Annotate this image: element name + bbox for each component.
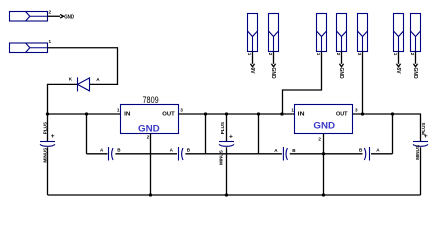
connector SV2 pin 2 (GND) (337, 14, 347, 52)
junction dot (225, 112, 228, 115)
cap row wire segment 3b (290, 153, 363, 155)
regulator IC2 (295, 105, 353, 134)
svg-text:A: A (170, 147, 174, 152)
svg-text:A: A (376, 147, 380, 152)
svg-text:2: 2 (147, 134, 150, 139)
junction dot (46, 112, 49, 115)
net label GND arrow (339, 64, 343, 67)
svg-text:GND: GND (64, 14, 74, 20)
wire diode cathode to input rail (48, 84, 78, 114)
cap row wire segment 4 (371, 153, 393, 155)
svg-text:IN: IN (124, 112, 130, 118)
riser wire to cap row (86, 114, 88, 154)
svg-text:OUT: OUT (162, 112, 175, 118)
connector SV1 pin 2 (GND) (269, 14, 279, 52)
svg-text:GND: GND (338, 68, 344, 80)
junction dot (204, 112, 207, 115)
svg-text:GND: GND (138, 124, 160, 134)
ground rail wire (48, 194, 421, 196)
svg-text:GND: GND (313, 121, 335, 131)
wire stub (273, 52, 275, 64)
riser wire 5V rail to cap row (392, 114, 394, 154)
wire pin1 to diode anode (48, 48, 118, 85)
net label GND arrow (413, 64, 417, 67)
svg-text:5V: 5V (395, 68, 401, 75)
IC1 GND pin wire to ground rail (150, 134, 152, 196)
junction dot (361, 112, 364, 115)
svg-text:MINUS: MINUS (218, 150, 223, 165)
junction dot (322, 152, 325, 155)
svg-text:2: 2 (268, 53, 273, 56)
svg-text:PLUS: PLUS (43, 122, 48, 134)
capacitor C7 (ceramic) (283, 147, 287, 161)
svg-text:3: 3 (357, 53, 362, 56)
svg-text:B: B (292, 148, 296, 153)
regulator IC1 7809 (121, 105, 179, 134)
svg-text:2: 2 (410, 53, 415, 56)
svg-text:2: 2 (336, 53, 341, 56)
cap row wire segment 3 (185, 153, 282, 155)
svg-text:A: A (100, 147, 104, 152)
net label 5V arrow (396, 64, 400, 67)
5V rail wire (353, 114, 421, 142)
svg-text:K: K (69, 77, 73, 82)
junction dot (391, 112, 394, 115)
IC2 GND pin wire to ground rail (323, 134, 325, 196)
svg-text:GND: GND (270, 68, 276, 80)
junction dot (149, 193, 152, 196)
svg-text:2: 2 (318, 137, 321, 142)
svg-text:PLUS: PLUS (220, 122, 225, 134)
svg-text:+: + (51, 133, 55, 140)
svg-text:B: B (187, 148, 191, 153)
svg-text:1: 1 (316, 53, 321, 56)
wire stub (252, 52, 254, 64)
9V rail wire (179, 113, 295, 115)
wire SV2 pin3 to 5V rail (362, 52, 364, 115)
svg-text:A: A (274, 148, 278, 153)
input rail wire (48, 113, 121, 115)
connector SV2 pin 1 (to 9V rail) (317, 14, 327, 52)
cap row wire segment 1 (87, 153, 108, 155)
svg-text:+: + (229, 134, 233, 141)
svg-text:1: 1 (247, 53, 252, 56)
svg-text:OUT: OUT (336, 112, 348, 118)
junction dot (322, 193, 325, 196)
wire stub (341, 52, 343, 64)
net label GND arrow (60, 14, 63, 18)
connector SV3 pin 1 (5V) (394, 14, 404, 52)
capacitor C6 (electrolytic, right) (413, 142, 428, 196)
capacitor C5 (ceramic, mirrored) (364, 147, 369, 161)
svg-text:3: 3 (180, 108, 183, 113)
connector X2 pin 2 (top-left pinhead) (10, 12, 48, 22)
capacitor C1 (electrolytic, left) (40, 114, 55, 195)
svg-text:IN: IN (298, 112, 305, 118)
svg-text:7809: 7809 (143, 95, 159, 105)
capacitor C3 (ceramic) (109, 147, 114, 161)
svg-text:A: A (96, 77, 100, 82)
svg-text:GND: GND (412, 68, 418, 80)
svg-text:B: B (117, 148, 121, 153)
connector X2 pin 1 (lower-left pinhead) (10, 43, 48, 53)
wire stub (415, 52, 417, 64)
svg-text:1: 1 (117, 108, 120, 113)
connector SV3 pin 2 (GND) (411, 14, 421, 52)
junction dot (280, 112, 283, 115)
svg-text:2: 2 (49, 10, 52, 15)
svg-text:MINUS: MINUS (43, 148, 48, 163)
junction dot (225, 193, 228, 196)
capacitor C4 (ceramic) (179, 147, 184, 161)
net label 9V arrow (250, 64, 254, 67)
junction dot (85, 112, 88, 115)
svg-text:1: 1 (393, 53, 398, 56)
connector SV2 pin 3 (to 5V rail) (358, 14, 368, 52)
riser wire 9V rail to cap row right (258, 114, 260, 154)
wire SV2 pin1 to 9V rail (283, 52, 322, 115)
svg-text:3: 3 (355, 107, 358, 112)
wire stub (398, 52, 400, 64)
svg-text:9V: 9V (249, 68, 255, 75)
svg-text:1: 1 (49, 39, 52, 44)
junction dot (257, 112, 260, 115)
svg-text:MINUS: MINUS (415, 145, 420, 160)
wire pin2 to GND label (48, 15, 61, 17)
capacitor C2 (electrolytic, middle) (219, 114, 234, 195)
svg-text:PLUS: PLUS (421, 123, 426, 135)
connector SV1 pin 1 (9V) (248, 14, 258, 52)
svg-text:B: B (359, 147, 363, 152)
cap row wire segment 2 (115, 153, 177, 155)
diode D1 (78, 77, 90, 91)
svg-text:1: 1 (291, 108, 294, 113)
riser wire 9V rail to cap row (205, 114, 207, 154)
net label GND arrow (271, 64, 275, 67)
